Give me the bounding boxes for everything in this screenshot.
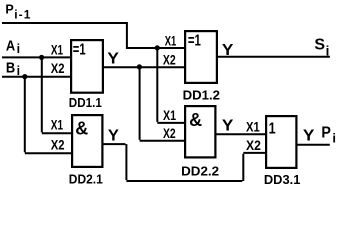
wire DD1.1 output Y to DD1.2 pin X2 — [104, 66, 185, 68]
junction dot Ai branch — [39, 55, 44, 60]
svg-text:Y: Y — [108, 128, 119, 145]
wire Ai input to DD1.1 pin X1 — [2, 56, 71, 58]
svg-text:X2: X2 — [246, 137, 261, 153]
op XOR gate DD1.2 box — [185, 31, 217, 83]
svg-text:S: S — [314, 37, 325, 54]
op AND gate DD2.2 box — [185, 106, 215, 157]
svg-text:DD2.1: DD2.1 — [69, 172, 103, 187]
node Pi output label — [321, 125, 336, 146]
svg-text:X1: X1 — [165, 32, 177, 48]
junction dot Pi-1 branch — [155, 45, 160, 50]
svg-text:i: i — [326, 44, 330, 59]
junction dot Bi branch — [22, 74, 27, 79]
svg-text:DD3.1: DD3.1 — [264, 172, 301, 187]
wire Pi-1 input to DD1.2 pin X1 — [2, 23, 185, 48]
wire Bi input to DD1.1 pin X2 — [2, 76, 71, 78]
node Ai input label — [6, 39, 20, 57]
svg-text:P: P — [321, 125, 331, 142]
svg-text:X2: X2 — [51, 136, 65, 152]
node Si output label — [314, 37, 329, 59]
svg-text:&: & — [189, 110, 202, 130]
wire branch Bi to DD2.1 pin X2 — [25, 77, 72, 154]
svg-text:Y: Y — [107, 51, 119, 68]
op XOR gate DD1.1 box — [71, 40, 103, 93]
wire branch DD1.1 Y to DD2.2 pin X2 — [140, 67, 185, 141]
svg-text:DD1.2: DD1.2 — [183, 88, 220, 103]
svg-text:X1: X1 — [51, 42, 63, 58]
svg-text:DD1.1: DD1.1 — [69, 95, 102, 110]
svg-text:X1: X1 — [51, 117, 63, 133]
op OR gate DD3.1 box — [266, 116, 296, 168]
svg-text:i-1: i-1 — [14, 8, 31, 22]
svg-text:A: A — [6, 39, 16, 55]
svg-text:=1: =1 — [188, 32, 201, 49]
wire DD3.1 output Y to Pi — [298, 144, 330, 146]
wire branch Pi-1 to DD2.2 pin X1 — [157, 48, 185, 123]
svg-text:X1: X1 — [246, 118, 260, 134]
wire DD2.2 output Y to DD3.1 pin X1 — [215, 133, 267, 135]
op AND gate DD2.1 box — [72, 115, 102, 167]
svg-text:X1: X1 — [163, 107, 176, 123]
svg-text:X2: X2 — [163, 125, 176, 141]
svg-text:P: P — [5, 3, 13, 17]
node Pi-1 input label — [5, 3, 31, 22]
wire DD2.1 output Y to DD3.1 pin X2 — [102, 144, 267, 181]
svg-text:Y: Y — [303, 128, 315, 145]
svg-text:X2: X2 — [51, 60, 65, 76]
node Bi input label — [6, 61, 20, 79]
svg-text:i: i — [17, 42, 20, 56]
svg-text:B: B — [6, 61, 15, 77]
svg-text:1: 1 — [269, 121, 276, 138]
svg-text:X2: X2 — [163, 51, 176, 67]
svg-text:DD2.2: DD2.2 — [181, 163, 219, 178]
svg-text:=1: =1 — [73, 41, 86, 58]
svg-text:Y: Y — [222, 118, 234, 135]
wire DD1.2 output Y to Si — [218, 56, 330, 58]
junction dot DD1.1 Y branch — [137, 64, 142, 69]
wire branch Ai to DD2.1 pin X1 — [42, 57, 72, 133]
svg-text:i: i — [332, 130, 336, 145]
svg-text:&: & — [75, 119, 88, 139]
